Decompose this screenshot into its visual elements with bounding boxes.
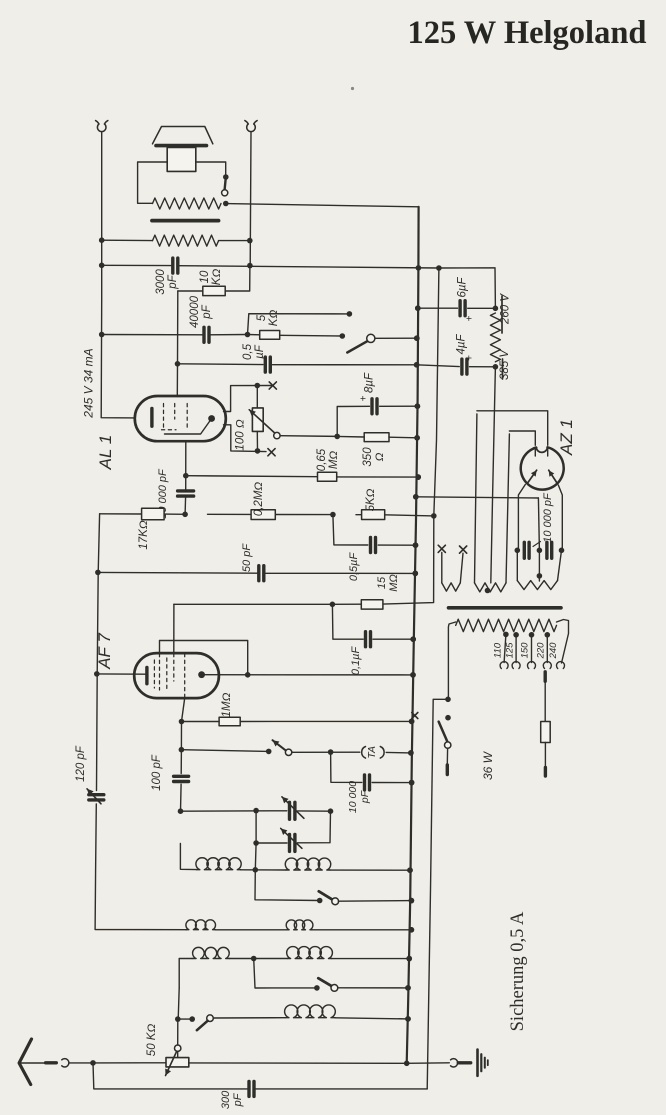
label 125 [504,642,515,659]
wire earth line [70,1060,167,1066]
svg-text:10 000 pF: 10 000 pF [542,492,554,543]
terminal input left [96,121,108,132]
label 40000 pF [189,295,213,328]
antenna symbol [19,1039,45,1085]
resistor 0,65 MΩ [318,472,337,481]
connector plug left [62,1059,69,1067]
tube AL1 envelope [135,396,226,441]
output transformer primary winding [153,198,222,209]
wire coil row 2 [186,927,414,933]
inductor L3a [192,947,230,958]
capacitor 300 pF [249,1081,254,1096]
winding mains primary [448,619,568,699]
label 3000 pF [155,269,179,295]
svg-text:6µF: 6µF [457,277,469,298]
wire grid-cap drop [173,604,175,653]
svg-text:300: 300 [220,1090,232,1109]
wire AZ1 filament left [509,431,535,445]
wire 0,1uF branch [332,604,416,642]
resistor voltage dropper vertical [490,313,500,362]
switch band 2 [318,978,411,991]
bus chassis line [407,207,419,1064]
label 260 V [500,293,512,333]
label 300 pF [220,1090,244,1109]
svg-text:4µF: 4µF [456,334,468,355]
resistor 5 KΩ tone [248,331,346,340]
label 10 000 pF pickup [347,781,371,813]
inductor L4 [285,1005,336,1018]
wire trimmer row [178,808,334,814]
svg-text:36 W: 36 W [481,750,495,780]
svg-text:Sicherung 0,5 A: Sicherung 0,5 A [508,911,528,1031]
svg-text:pF: pF [232,1092,244,1107]
svg-text:pF: pF [167,274,179,289]
tube AL1 cathode bar [150,409,153,427]
svg-text:8µF: 8µF [364,372,376,393]
svg-text:MΩ: MΩ [328,451,340,470]
wire AZ1 filament right [477,411,548,446]
svg-text:AZ 1: AZ 1 [557,419,576,456]
wire 385V line [417,364,499,370]
inductor L3b [287,947,333,959]
label 6 µF [457,277,469,298]
svg-text:+: + [465,315,476,321]
svg-text:245 V 34 mA: 245 V 34 mA [82,348,96,418]
label AF 7 [95,633,114,670]
wire band switch 3 line [175,1016,195,1022]
resistor 1 MΩ [179,717,415,726]
paper speck [351,87,354,90]
wire HT to AZ1 anode line [413,494,538,500]
wire secondary right [219,238,253,244]
wire cathode-R line [100,512,437,519]
output transformer core [152,219,219,223]
capacitor 3000 pF [173,258,178,273]
switch pickup [273,740,292,755]
tube AF7 envelope [134,653,219,698]
terminal 110 [500,662,508,669]
wire B+ feed vertical [383,268,439,604]
terminal 240 [557,662,565,669]
wire secondary left [99,237,153,243]
svg-text:1MΩ: 1MΩ [221,692,233,717]
svg-text:0,1µF: 0,1µF [350,646,362,676]
connector plug right [451,1059,458,1067]
capacitor 10 000 pF b [547,542,564,558]
inductor L1b [285,858,330,870]
wire pickup line [179,747,272,754]
capacitor 10 000 pF a [515,542,543,558]
capacitor 10 000 pF cathode [178,441,194,514]
label 350 Ω [362,447,386,467]
svg-text:MΩ: MΩ [388,574,400,592]
capacitor 100 pF [174,776,189,781]
wire coil row 1 [180,844,412,874]
wire cap centre tap [537,498,543,579]
terminal 150 [528,662,536,669]
label 36 W [481,750,495,780]
wire 40000pF line [99,332,250,338]
label 245 V 34 mA [82,348,96,418]
wire earth thick lead right [458,1061,470,1064]
potentiometer 100 Ω wiper [249,410,280,439]
potentiometer 100 Ω hum [252,386,263,451]
wire 10000pF branch [331,752,415,785]
wire wiper to 350 [280,434,340,440]
wire left bus A (245V) [101,132,135,418]
wire grid-cap line [174,602,361,608]
tube AZ1 envelope [521,447,564,489]
switch band 1 [319,891,414,904]
capacitor 40000 pF [204,327,209,342]
bus junction dots [405,305,421,1021]
svg-text:0,5: 0,5 [242,343,254,360]
winding heater AZ1 [475,367,510,594]
svg-text:AF 7: AF 7 [95,633,114,670]
switch tone [347,334,419,352]
wire 50pF line [95,570,418,577]
inductor L2b [286,920,313,930]
wire backbias line [175,361,420,368]
wire pickup line right [292,749,414,755]
capacitor 0,1 µF [366,632,371,647]
svg-text:100 pF: 100 pF [151,754,163,791]
svg-text:AL 1: AL 1 [96,435,115,471]
wire mains return riser [427,699,448,1089]
svg-text:+: + [359,395,370,401]
label 220 [536,642,547,660]
wire coil row 3 [179,956,412,988]
svg-text:50 pF: 50 pF [241,543,253,572]
switch band 3 [197,1015,285,1030]
tube AL1 grid dashes [162,404,188,431]
label 120 pF [75,745,87,782]
svg-text:5KΩ: 5KΩ [365,488,377,511]
svg-text:0,65: 0,65 [316,448,328,471]
capacitor 10 000 pF pickup [365,775,370,790]
svg-text:50 KΩ: 50 KΩ [146,1024,158,1057]
tube AF7 cathode bar [145,668,148,684]
capacitor 8 µF [359,395,378,413]
loudspeaker magnet box [167,147,196,171]
wire right terminal drop [249,132,252,265]
label 4 µF [456,334,468,355]
wire tone stub [248,311,353,334]
svg-text:150: 150 [520,642,531,659]
wire earth line thick lead [46,1061,57,1064]
wire AF7 input [94,671,147,677]
label 385 V [499,349,511,380]
label 100 pF [151,754,163,791]
fuse Sicherung 0,5A [541,672,551,776]
svg-text:350: 350 [362,447,374,467]
svg-text:125 W Helgoland: 125 W Helgoland [408,15,647,51]
node x bus [412,713,418,719]
wire 0,5uF g2 line [333,515,418,548]
node x heater a [438,545,445,552]
svg-text:15: 15 [376,576,388,589]
capacitor 50 pF [259,566,264,581]
wire AL1 filament top [224,383,273,412]
wire AF7 anode line [202,672,416,678]
wire 8uF branch [337,403,420,436]
label 17 KΩ [138,520,150,549]
label 0,5 µF g2 [348,552,360,582]
wire AF7 cathode chain [181,698,185,811]
resistor 350 Ω [337,433,420,442]
svg-text:17KΩ: 17KΩ [138,520,150,549]
wire left bus B lower [95,804,186,930]
svg-text:125: 125 [504,642,515,659]
wire earth line right [189,1061,450,1067]
svg-text:110: 110 [493,642,504,658]
wire AL1 filament bottom [224,425,267,454]
capacitor 4 µF [462,355,476,374]
node x filament bottom [268,449,275,456]
svg-text:120 pF: 120 pF [75,745,87,782]
capacitor 0,5 µF g2 [371,538,376,553]
label 0,1 µF [350,646,362,676]
label 150 [520,642,531,659]
label 5 KΩ tone [256,310,280,327]
wire left bus B upper [97,514,100,791]
capacitor trimmer 2 [281,828,302,851]
loudspeaker cone [153,127,213,146]
label 50 KΩ [146,1024,158,1057]
wire coil row 4 right [335,1016,411,1022]
wire B+ top line [99,263,442,271]
label AL 1 [96,435,115,471]
terminal 220 [543,662,551,669]
node x filament top [269,382,276,389]
label 10 000 pF AZ1 [533,492,554,547]
label Sicherung 0,5 A [508,911,528,1031]
wire band switch 2 feed [254,959,320,991]
svg-text:100 Ω: 100 Ω [235,419,247,450]
wire 0,65M line [183,473,421,480]
svg-text:10 000: 10 000 [347,781,359,813]
svg-text:+: + [465,355,476,361]
resistor 17 KΩ [142,508,165,520]
capacitor trimmer 1 [282,797,304,820]
tap stubs [504,634,547,662]
wire trimmer drop [254,843,257,870]
label 1 MΩ [221,692,233,717]
wire corner to 260V rail [439,268,496,309]
label AZ 1 [557,419,576,456]
wire band switch 1 feed [255,870,323,904]
label 15 MΩ [376,574,400,592]
tube AZ1 anode arrows [528,470,557,483]
resistor 10 KΩ [178,266,250,296]
switch mains [439,697,451,749]
wire speaker left to OT [138,162,168,203]
svg-text:3000: 3000 [155,269,167,295]
wire AF7 screen loop [160,640,248,674]
tube AL1 anode [165,415,216,434]
tube AF7 grid dashes [154,654,184,699]
resistor 5 KΩ screen [362,510,385,520]
tube AF7 anode [198,671,205,678]
resistor 15 MΩ [361,600,383,609]
tap dots [503,632,550,638]
inductor L2a [186,920,216,930]
wire AZ1 cathode right [558,485,562,550]
svg-text:385 V: 385 V [499,349,511,380]
terminal input right [245,121,257,132]
wire mains lead left [446,748,448,774]
node x heater b [460,546,467,553]
label 50 pF [241,543,253,572]
label 240 [548,642,559,660]
svg-text:40000: 40000 [189,295,201,328]
wire trimmer loop [253,811,330,846]
label 10 KΩ [199,269,223,286]
svg-text:KΩ: KΩ [211,269,223,286]
label 0,5 µF [242,343,266,360]
capacitor 120 pF trimmer [87,789,104,804]
svg-text:Ω: Ω [374,452,386,461]
label 8 µF [364,372,376,393]
winding heater AF7 [517,550,561,589]
capacitor 6 µF [460,301,475,322]
label 0,65 MΩ [316,448,340,471]
title text [408,15,647,51]
connector TA [362,746,384,759]
svg-text:TA: TA [366,746,378,759]
wire AZ1 cathode left [518,485,525,551]
resistor 0,2 MΩ [251,510,275,520]
svg-text:10: 10 [199,270,211,283]
svg-text:0,2MΩ: 0,2MΩ [253,482,265,517]
inductor L1a [196,858,241,870]
wire grid feed vertical [176,291,179,397]
svg-text:240: 240 [548,642,559,660]
svg-text:pF: pF [201,304,213,319]
svg-text:220: 220 [536,642,547,660]
label 10 000 pF cathode [157,468,169,519]
wire speaker right to switch [196,162,226,175]
potentiometer 50 KΩ [165,1045,189,1076]
output transformer secondary winding [153,235,219,246]
label 0,2 MΩ [253,482,265,517]
svg-text:0,5µF: 0,5µF [348,552,360,582]
terminal 125 [512,662,520,669]
svg-text:5: 5 [256,314,268,321]
svg-text:pF: pF [359,790,371,804]
capacitor 0,5 µF [265,357,270,372]
svg-text:KΩ: KΩ [268,310,280,327]
wire anode line to bus [226,204,419,207]
wire 300pF line [93,1063,427,1089]
wire wiper to switch [177,1019,179,1045]
svg-text:µF: µF [254,344,266,359]
label 110 [493,642,504,658]
wire wiper drop [178,988,179,1019]
label 100 Ω [235,419,247,450]
winding heater AL1 [442,552,463,591]
ground symbol [478,1050,488,1076]
switch speaker shorting [222,174,229,206]
transformer core [449,606,562,610]
label 5 KΩ screen [365,488,377,511]
wire 260V line [415,305,498,311]
